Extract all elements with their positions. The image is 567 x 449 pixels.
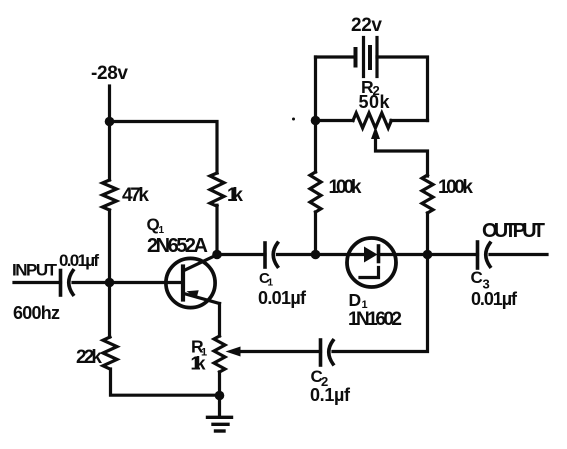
wire wiper to right 100k <box>376 136 428 176</box>
wire node A to 1k branch (top horizontal) <box>110 122 218 174</box>
potentiometer R2 wiper arrow <box>371 127 380 140</box>
ground symbol <box>208 396 232 432</box>
wire battery left horizontal <box>316 55 356 58</box>
label 22k <box>76 347 102 368</box>
svg-text:2N652A: 2N652A <box>147 235 208 257</box>
wire 100k right bottom to node F <box>426 213 429 255</box>
label 100k right <box>438 177 473 198</box>
svg-text:1k: 1k <box>191 354 207 374</box>
node C junction dot (collector node) <box>212 250 222 260</box>
label D1 <box>349 290 368 311</box>
svg-text:100k: 100k <box>438 177 473 198</box>
svg-text:22k: 22k <box>76 347 102 368</box>
wire input cap to node B <box>73 281 110 284</box>
wire node A to 47k top <box>108 122 111 181</box>
label 100k left <box>329 177 362 198</box>
wire C1 to node D <box>278 253 316 256</box>
svg-text:0.01µf: 0.01µf <box>258 288 307 308</box>
svg-text:INPUT: INPUT <box>12 261 58 280</box>
wire node F to C3 <box>428 253 478 256</box>
diode D1 circle <box>347 238 396 287</box>
label 0.01uf (C3) <box>471 289 518 309</box>
wire base <box>110 281 184 284</box>
svg-text:1k: 1k <box>227 185 243 206</box>
battery 22v <box>356 38 378 77</box>
label 0.01uf (input cap) <box>59 251 99 270</box>
resistor R 47k <box>103 180 117 210</box>
resistor 100k right <box>422 175 433 213</box>
diode D1 cathode bar <box>377 246 381 262</box>
label 50k <box>359 92 391 112</box>
wire node B to 22k <box>108 283 111 338</box>
transistor Q1 collector lead <box>184 255 217 271</box>
potentiometer R2 50k <box>353 113 391 128</box>
diode D1 triangle <box>364 247 378 263</box>
wire battery loop left vertical <box>314 57 317 121</box>
wire node E to 100k left top <box>314 121 317 173</box>
capacitor input 0.01uf <box>61 271 74 296</box>
label 1k <box>227 185 243 206</box>
stray scan speck <box>292 118 295 121</box>
wire collector node to C1 <box>217 253 265 256</box>
node G junction dot (ground node) <box>215 391 225 401</box>
resistor 1k (collector load) <box>210 173 224 206</box>
resistor 100k left <box>310 172 321 212</box>
label 47k <box>122 185 149 206</box>
label C1 <box>259 270 274 289</box>
svg-text:0.01µf: 0.01µf <box>59 251 99 270</box>
transistor Q1 emitter lead <box>184 294 220 304</box>
wire C2 to node F vertical <box>333 255 428 352</box>
label 1k (R1) <box>191 354 207 374</box>
wire 22k bottom to ground rail <box>111 369 220 395</box>
svg-text:0.01µf: 0.01µf <box>471 289 518 309</box>
svg-text:47k: 47k <box>122 185 149 206</box>
transistor Q1 base bar <box>181 267 185 300</box>
svg-text:OUTPUT: OUTPUT <box>482 220 545 242</box>
label C2 <box>311 367 329 389</box>
svg-text:-28v: -28v <box>91 63 128 84</box>
node F junction dot (output node) <box>423 250 433 260</box>
label C3 <box>471 268 490 292</box>
wire 1k bottom to collector node <box>215 205 218 254</box>
resistor 22k <box>103 337 117 369</box>
wire 100k left bottom to node D <box>314 212 317 255</box>
label 2N652A <box>147 235 208 257</box>
transistor Q1 circle <box>166 258 215 307</box>
wire battery right horizontal and down <box>377 57 428 121</box>
label 22v <box>351 15 382 36</box>
wire node D to diode D1 <box>316 253 365 256</box>
svg-text:C: C <box>471 268 483 287</box>
label R1 <box>191 337 207 359</box>
wire output lead <box>490 253 547 256</box>
label Q1 <box>147 215 165 236</box>
svg-text:0.1µf: 0.1µf <box>310 385 351 405</box>
capacitor C1 <box>265 243 278 267</box>
label R2 <box>361 77 380 98</box>
node B junction dot (base node) <box>105 278 115 288</box>
label INPUT <box>12 261 58 280</box>
svg-text:1: 1 <box>268 278 274 289</box>
wire arrow to C2 <box>238 350 321 353</box>
wire input lead <box>14 281 61 284</box>
wire R1 bottom to ground node <box>218 372 221 396</box>
svg-text:50k: 50k <box>359 92 391 112</box>
wire from -28v down to node A <box>108 86 111 122</box>
node E junction dot (pot left) <box>311 116 321 126</box>
label 0.1uf (C2) <box>310 385 351 405</box>
label -28v <box>91 63 128 84</box>
node A junction dot (-28v rail) <box>105 117 115 127</box>
wire diode D1 to node F <box>379 253 428 256</box>
svg-text:1N1602: 1N1602 <box>348 309 402 330</box>
wire pot right to battery corner <box>391 119 428 122</box>
wire 47k bottom to input node <box>108 210 111 283</box>
capacitor C3 <box>478 242 491 268</box>
node D junction dot <box>311 250 321 260</box>
label 0.01uf (C1) <box>258 288 307 308</box>
resistor R1 1k (variable) <box>214 336 225 372</box>
svg-text:D: D <box>349 290 362 310</box>
diode D1 hook mark <box>360 268 379 278</box>
label 600hz <box>13 303 60 323</box>
wire emitter to R1 <box>218 304 221 337</box>
svg-text:600hz: 600hz <box>13 303 60 323</box>
transistor Q1 emitter arrow (PNP) <box>187 290 199 298</box>
capacitor C2 <box>321 340 334 365</box>
svg-text:22v: 22v <box>351 15 382 36</box>
label OUTPUT <box>482 220 545 242</box>
arrow into R1 (wiper from C2) <box>226 347 241 357</box>
wire node E to pot <box>316 119 354 122</box>
svg-text:100k: 100k <box>329 177 362 198</box>
label 1N1602 <box>348 309 402 330</box>
